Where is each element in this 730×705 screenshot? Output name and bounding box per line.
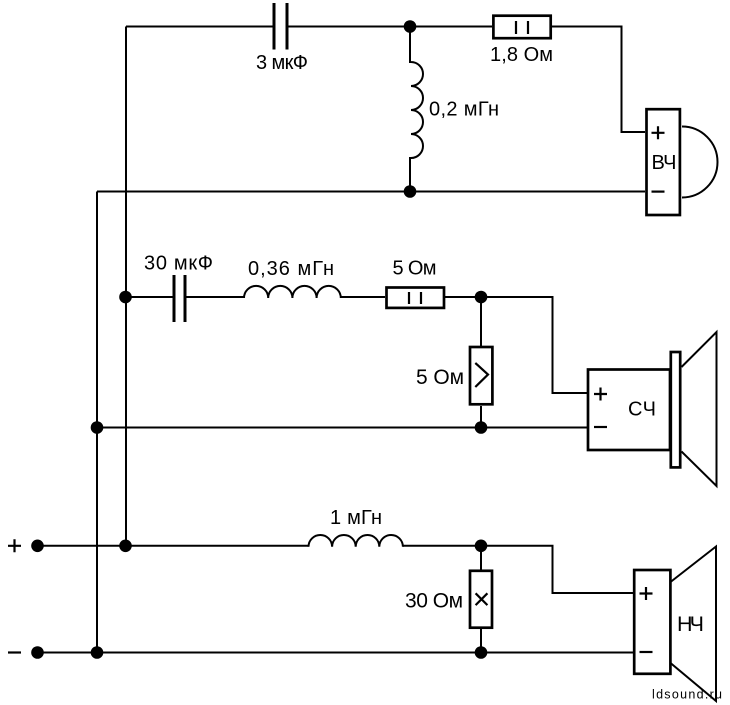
speaker НЧ plus sign bbox=[640, 587, 653, 600]
wire R4 to node I bbox=[480, 629, 482, 653]
terminal plus sign bbox=[8, 539, 21, 552]
svg-text:1,8 Ом: 1,8 Ом bbox=[490, 44, 553, 66]
wire R2 to corner bbox=[445, 297, 587, 393]
resistor R1 1,8 Ом box bbox=[493, 16, 550, 39]
speaker ВЧ dome bbox=[682, 127, 718, 198]
speaker ВЧ box bbox=[647, 109, 680, 215]
resistor R2 power marks bbox=[409, 292, 421, 304]
wire top feed from rail2 to C1 bbox=[126, 26, 273, 28]
node I junction bottom minus bbox=[475, 646, 488, 659]
inductor L2 0,36 мГн bbox=[244, 286, 341, 298]
speaker НЧ minus sign bbox=[640, 651, 653, 653]
node C junction rail2 mid bbox=[119, 291, 132, 304]
resistor R1 power marks bbox=[516, 21, 528, 34]
speaker ВЧ plus sign bbox=[652, 126, 665, 139]
speaker СЧ box bbox=[588, 370, 670, 451]
svg-text:3 мкФ: 3 мкФ bbox=[256, 52, 308, 74]
wire C1 to R1 bbox=[288, 26, 492, 28]
node D junction mid bbox=[475, 291, 488, 304]
svg-text:5 Ом: 5 Ом bbox=[393, 258, 437, 280]
svg-text:5 Ом: 5 Ом bbox=[416, 366, 464, 389]
resistor R3 5 Ом vertical box bbox=[470, 347, 492, 404]
node E junction mid bottom bbox=[475, 421, 488, 434]
node F junction rail1 mid bbox=[91, 421, 104, 434]
svg-text:СЧ: СЧ bbox=[628, 399, 656, 421]
terminal minus sign bbox=[8, 651, 21, 653]
capacitor C2 30 мкФ plate right bbox=[184, 275, 187, 322]
inductor L1 0,2 мГн vertical bbox=[410, 27, 423, 192]
node B junction dot L1 bottom bbox=[404, 185, 417, 198]
resistor R4 30 Ом vertical box bbox=[470, 571, 492, 628]
node G junction rail2 bottom bbox=[119, 540, 132, 553]
wire R3 to node E bbox=[480, 406, 482, 428]
svg-text:30 Ом: 30 Ом bbox=[405, 590, 463, 613]
node H junction bottom bbox=[475, 540, 488, 553]
terminal plus dot bbox=[31, 540, 44, 553]
capacitor C1 3 мкФ plate right bbox=[286, 3, 289, 50]
wire rail2 to C2 bbox=[126, 296, 173, 298]
svg-text:ldsound.ru: ldsound.ru bbox=[652, 688, 722, 702]
svg-text:НЧ: НЧ bbox=[677, 612, 704, 636]
capacitor C2 30 мкФ plate left bbox=[173, 275, 176, 322]
resistor R3 chevron mark bbox=[475, 363, 488, 387]
speaker СЧ plus sign bbox=[594, 388, 607, 401]
wire H to R4 bbox=[480, 546, 482, 570]
wire plus input horizontal bbox=[38, 545, 309, 547]
node J junction rail1 bottom bbox=[91, 646, 104, 659]
wire СЧ minus horizontal bbox=[97, 427, 587, 429]
svg-text:ВЧ: ВЧ bbox=[652, 152, 677, 174]
wire D to R3 bbox=[480, 297, 482, 346]
rail1 minus vertical bbox=[96, 192, 98, 653]
terminal minus dot bbox=[31, 646, 44, 659]
svg-text:30 мкФ: 30 мкФ bbox=[144, 253, 213, 275]
capacitor C1 3 мкФ plate left bbox=[273, 3, 276, 50]
resistor R4 cross mark bbox=[476, 593, 488, 605]
inductor L3 1 мГн bbox=[309, 535, 403, 547]
node A junction dot top bbox=[404, 20, 417, 33]
svg-text:1 мГн: 1 мГн bbox=[330, 507, 382, 529]
speaker СЧ frame rect bbox=[671, 352, 680, 467]
rail2 plus vertical bbox=[125, 27, 127, 547]
speaker ВЧ minus sign bbox=[652, 191, 665, 193]
wire L3 to corner bbox=[403, 546, 634, 593]
wire C2 to L2 bbox=[186, 296, 244, 298]
speaker СЧ cone bbox=[682, 332, 717, 486]
wire L2 to R2 bbox=[341, 296, 385, 298]
svg-text:0,36 мГн: 0,36 мГн bbox=[248, 258, 334, 280]
wire ВЧ minus horizontal bbox=[97, 191, 645, 193]
wire minus input horizontal bbox=[38, 652, 635, 654]
speaker НЧ cone bbox=[671, 547, 717, 702]
speaker НЧ box bbox=[634, 570, 670, 674]
speaker СЧ minus sign bbox=[594, 426, 607, 428]
wire R1 to ВЧ plus bbox=[552, 27, 645, 133]
resistor R2 5 Ом box bbox=[387, 288, 445, 308]
svg-text:0,2 мГн: 0,2 мГн bbox=[429, 99, 499, 121]
